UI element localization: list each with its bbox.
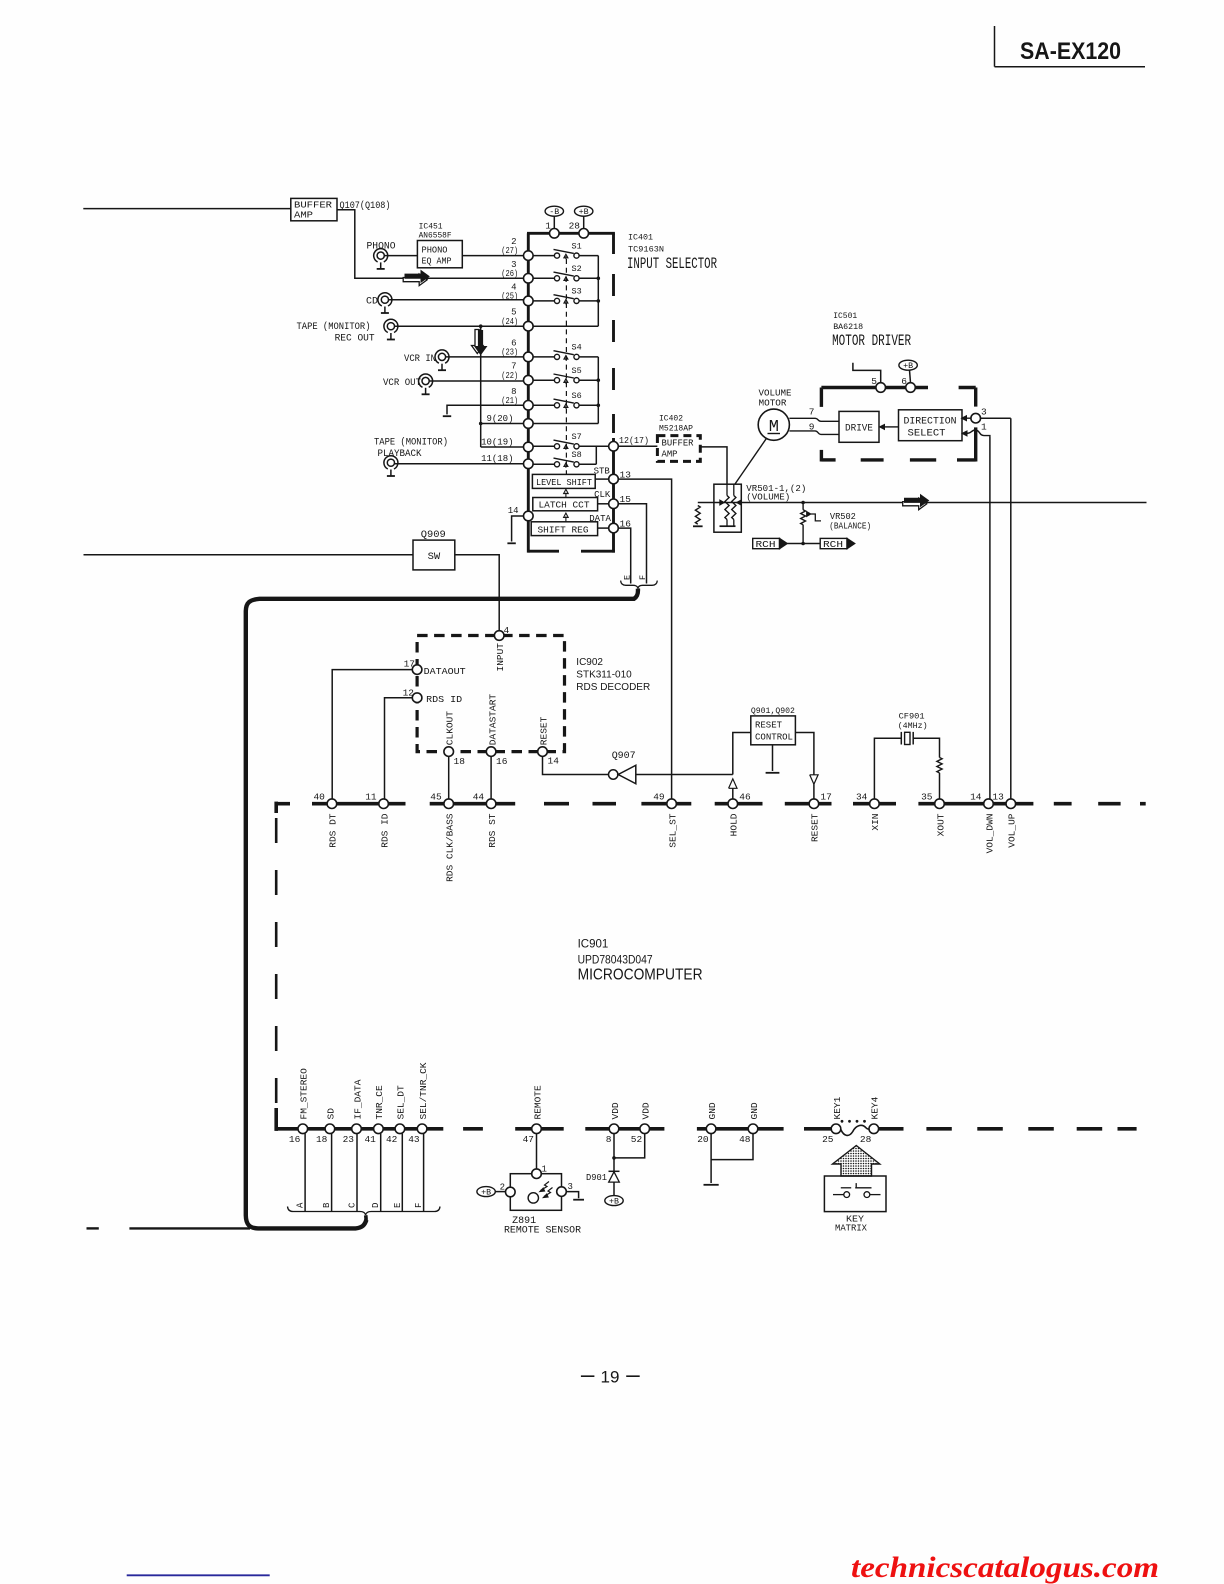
dotted link KEY1..KEY4 (841, 1120, 844, 1123)
pin 4 INPUT (494, 631, 504, 641)
svg-text:17: 17 (820, 791, 831, 802)
svg-text:INPUT: INPUT (495, 643, 506, 672)
svg-text:48: 48 (739, 1134, 751, 1145)
svg-text:VCR IN: VCR IN (404, 354, 436, 365)
svg-text:41: 41 (364, 1134, 376, 1145)
motor wire pin9 (789, 431, 839, 435)
VR502 bottom to RCH line (802, 525, 804, 544)
svg-text:XIN: XIN (870, 814, 881, 831)
pin 5 (876, 383, 886, 393)
mcu pin 18 SD (325, 1124, 335, 1134)
svg-text:35: 35 (921, 791, 933, 802)
svg-text:14: 14 (970, 791, 982, 802)
shift reg box (531, 522, 597, 536)
S4-S6 common vertical (597, 357, 599, 424)
wire reset control to reset pin (795, 733, 814, 775)
svg-text:28: 28 (569, 221, 581, 232)
svg-text:S2: S2 (572, 264, 582, 274)
blue footer underline (127, 1574, 270, 1576)
pin 1 squiggle wire to VOL_DWN (967, 430, 990, 438)
svg-text:XOUT: XOUT (935, 813, 946, 836)
VR502 wiper (807, 512, 811, 517)
sensor pin 3 (557, 1187, 567, 1197)
wire pin14 to Q907 (543, 756, 609, 774)
reset control ground stem (772, 745, 774, 771)
svg-text:TC9163N: TC9163N (628, 245, 664, 255)
svg-text:RDS DECODER: RDS DECODER (576, 682, 650, 693)
switch row stub wires (533, 255, 554, 257)
svg-text:RDS CLK/BASS: RDS CLK/BASS (445, 813, 456, 882)
light arrows (540, 1182, 553, 1198)
svg-text:(21): (21) (501, 396, 518, 406)
wire pin18 down (448, 756, 450, 799)
arrow latch<-shift (564, 513, 569, 522)
mcu pin 47 REMOTE (532, 1124, 542, 1134)
wire pin9(20) stub (481, 423, 524, 425)
svg-text:S6: S6 (572, 391, 582, 401)
wire pin10(19) stub (481, 446, 524, 448)
svg-text:RESET: RESET (539, 716, 550, 745)
RCH tag left (753, 538, 780, 548)
arrow into direction select pin3 (966, 417, 971, 419)
Q909 SW box (413, 540, 455, 570)
svg-text:CLKOUT: CLKOUT (445, 711, 456, 746)
svg-text:S5: S5 (572, 366, 582, 376)
svg-text:Q909: Q909 (421, 530, 446, 541)
S7 wires (533, 445, 554, 447)
svg-text:(VOLUME): (VOLUME) (746, 492, 790, 502)
svg-text:RESET: RESET (810, 813, 821, 842)
svg-text:DATAOUT: DATAOUT (424, 666, 466, 677)
junction rec out / monitor drop (479, 324, 483, 328)
latch cct box (533, 498, 598, 511)
svg-text:16: 16 (289, 1134, 301, 1145)
tape monitor playback jack (384, 456, 398, 469)
svg-text:7: 7 (809, 407, 815, 418)
svg-text:14: 14 (548, 756, 560, 767)
svg-text:DATA: DATA (589, 514, 611, 524)
svg-text:(25): (25) (501, 292, 518, 302)
svg-text:IF_DATA: IF_DATA (352, 1079, 363, 1119)
mcu pin 23 IF_DATA (352, 1124, 362, 1134)
wire pin16 down (490, 756, 492, 799)
pin 2(27) (524, 251, 534, 261)
svg-text:RESET: RESET (755, 720, 782, 731)
svg-text:+B: +B (579, 208, 589, 217)
svg-text:43: 43 (408, 1134, 420, 1145)
volume motor M (758, 409, 789, 440)
tape monitor rec out jack (384, 319, 398, 332)
drive box (839, 411, 879, 442)
VR501 wiper arrows (720, 500, 724, 505)
svg-text:17: 17 (404, 659, 415, 670)
wire crystal left to XIN (874, 738, 901, 799)
thick bus from EF tag down-left (246, 589, 638, 1229)
pin 4(25) (524, 296, 534, 306)
svg-text:FM_STEREO: FM_STEREO (299, 1068, 310, 1120)
svg-text:6: 6 (901, 376, 907, 387)
svg-text:25: 25 (822, 1134, 834, 1145)
svg-text:19: 19 (601, 1368, 620, 1387)
motor wire pin7 (789, 418, 839, 421)
mcu pin 16 FM_STEREO (298, 1124, 308, 1134)
wire pin12 to mcu pin11 (385, 698, 413, 799)
wire buffer amp to pin3 line (337, 210, 527, 278)
svg-text:44: 44 (473, 791, 485, 802)
mcu pin 48 GND (748, 1124, 758, 1134)
Z891 box (510, 1174, 561, 1211)
switch control dashed line (565, 259, 567, 474)
pin 7(22) (524, 375, 534, 385)
svg-text:KEY1: KEY1 (832, 1096, 843, 1119)
svg-text:VR502: VR502 (830, 512, 856, 522)
mcu pin 11 RDS ID (379, 799, 389, 809)
svg-text:5: 5 (871, 376, 877, 387)
svg-text:GND: GND (749, 1102, 760, 1119)
svg-text:49: 49 (653, 791, 665, 802)
switch S3 (554, 298, 559, 303)
direction select box (899, 410, 963, 441)
svg-text:VOL_UP: VOL_UP (1007, 813, 1018, 848)
IC401 right edge dashed (612, 233, 615, 254)
wire pin3 to ground (566, 1192, 578, 1199)
svg-text:(4MHz): (4MHz) (898, 721, 928, 731)
svg-text:E: E (393, 1203, 403, 1208)
mcu pin 34 XIN (870, 799, 880, 809)
Q907 inverter (609, 770, 618, 779)
svg-text:+B: +B (609, 1198, 619, 1207)
volume feed line (698, 502, 1147, 504)
svg-text:SEL_ST: SEL_ST (667, 813, 678, 848)
microcomputer top bus (276, 802, 290, 806)
svg-text:DRIVE: DRIVE (845, 424, 873, 435)
mcu pin 42 SEL_DT (395, 1124, 405, 1134)
pin 13 (609, 474, 619, 484)
pin 15 (609, 499, 619, 509)
svg-text:MICROCOMPUTER: MICROCOMPUTER (578, 966, 703, 983)
wire E line (401, 1134, 403, 1211)
mcu pin 17 RESET (809, 799, 819, 809)
wire pin20 to ground (710, 1134, 712, 1183)
mcu pin 13 VOL_UP (1006, 799, 1016, 809)
wire playback to pin11 (395, 463, 524, 465)
svg-text:BUFFER: BUFFER (662, 438, 694, 449)
svg-text:3: 3 (568, 1182, 573, 1192)
svg-text:RDS DT: RDS DT (328, 813, 339, 848)
mcu pin 45 RDS CLK/BASS (444, 799, 454, 809)
level shift box (532, 474, 595, 488)
svg-text:RCH: RCH (756, 539, 776, 550)
vertical monitor wire with down arrow (480, 326, 482, 447)
svg-text:A: A (296, 1202, 306, 1208)
pin 16 DATASTART (486, 747, 496, 757)
wire resistor to XOUT (939, 773, 941, 799)
svg-text:10(19): 10(19) (481, 437, 513, 447)
svg-text:8: 8 (606, 1134, 612, 1145)
mcu pin 41 TNR_CE (374, 1124, 384, 1134)
wire pin52 jog to pin8 line (614, 1134, 645, 1158)
svg-text:-B: -B (549, 208, 559, 217)
switch S1 (554, 253, 559, 258)
page number footer (581, 1375, 595, 1377)
motor driver box bottom (821, 458, 835, 461)
motor driver box left edge (820, 388, 823, 407)
svg-text:S4: S4 (572, 343, 582, 353)
mcu pin 43 SEL/TNR_CK (417, 1124, 427, 1134)
IC401 left bus (527, 233, 530, 552)
mcu pin 44 RDS ST (486, 799, 496, 809)
wire level shift to pin13 (595, 478, 608, 480)
wire pin15 CLK to F tag (618, 504, 646, 584)
svg-text:B: B (322, 1202, 332, 1208)
pin 12 RDS ID (412, 693, 422, 703)
svg-text:Q901,Q902: Q901,Q902 (751, 706, 795, 716)
svg-text:CLK: CLK (594, 490, 611, 500)
arrow level<-latch (564, 489, 569, 497)
title block line horizontal (995, 66, 1146, 68)
mcu top-left corner (274, 802, 278, 813)
wire phono jack to eq amp (384, 255, 417, 257)
pin 9(20) (524, 419, 534, 429)
svg-text:+B: +B (903, 362, 913, 371)
wire CD to pin4 (389, 299, 524, 301)
continuation dash bottom-left (87, 1227, 99, 1229)
wire latch to pin15 (598, 503, 610, 505)
svg-text:RCH: RCH (823, 539, 843, 550)
pin14 wire to ground (512, 516, 524, 542)
svg-text:TNR_CE: TNR_CE (374, 1085, 385, 1120)
wire left edge to SW (84, 554, 414, 556)
svg-text:(BALANCE): (BALANCE) (829, 522, 871, 532)
svg-text:(27): (27) (501, 246, 518, 256)
pin 3 wire to VOL_UP (981, 417, 1011, 419)
mcu bottom-left corner (274, 1108, 278, 1131)
S1-S3 common vertical (597, 256, 599, 327)
resistor to ground left of VR501 (695, 506, 700, 525)
volume line signal arrow (903, 498, 927, 510)
svg-text:IC501: IC501 (833, 311, 857, 321)
svg-text:technicscatalogus.com: technicscatalogus.com (851, 1551, 1159, 1584)
svg-text:EQ AMP: EQ AMP (422, 255, 452, 266)
VR501 pot element right (733, 484, 735, 495)
pin 8(21) (524, 401, 534, 411)
wire Q907 out to hold line (636, 774, 733, 776)
svg-text:CONTROL: CONTROL (755, 732, 793, 743)
svg-text:18: 18 (316, 1134, 328, 1145)
svg-text:SW: SW (428, 551, 441, 563)
mcu pin 40 RDS DT (327, 799, 337, 809)
pin 18 CLKOUT (444, 747, 454, 757)
svg-text:46: 46 (739, 791, 751, 802)
svg-text:LATCH CCT: LATCH CCT (539, 500, 590, 511)
svg-text:PLAYBACK: PLAYBACK (378, 449, 422, 460)
svg-text:1: 1 (545, 221, 551, 232)
svg-text:34: 34 (856, 791, 868, 802)
wire pin17 to mcu pin40 (332, 670, 412, 799)
svg-text:S7: S7 (572, 432, 582, 442)
mcu pin 49 SEL_ST (667, 799, 677, 809)
switch S8 (554, 462, 559, 467)
pin5 wire to common (533, 325, 598, 327)
svg-text:9(20): 9(20) (486, 414, 513, 424)
E/F tag brace (621, 581, 658, 589)
VR502 pot (801, 510, 806, 525)
svg-text:AN6558F: AN6558F (419, 231, 452, 241)
motor driver dashed box top (821, 386, 928, 389)
VR501 box (714, 484, 741, 532)
wire F line (423, 1134, 425, 1211)
wire pin16 DATA to E tag (618, 528, 631, 583)
phono input jack (374, 249, 388, 262)
mcu pin 20 GND (706, 1124, 716, 1134)
svg-text:(22): (22) (501, 371, 518, 381)
pin 28 (579, 229, 589, 239)
svg-text:20: 20 (697, 1134, 709, 1145)
svg-text:F: F (638, 575, 648, 580)
svg-text:MOTOR: MOTOR (759, 398, 788, 408)
svg-text:RDS ID: RDS ID (426, 694, 462, 705)
title block line vertical (994, 26, 996, 67)
wire crystal right to resistor (913, 738, 939, 757)
key switch symbol (833, 1194, 844, 1196)
wire B line (331, 1134, 333, 1211)
svg-text:CD: CD (366, 297, 378, 308)
wire rec out to pin5 (395, 325, 524, 327)
phono eq amp U-IC451 box (417, 241, 462, 268)
+B oval to pin2 (477, 1187, 495, 1197)
svg-text:F: F (414, 1203, 424, 1208)
mcu pin 8 VDD (609, 1124, 619, 1134)
A-F brace (288, 1207, 441, 1216)
svg-text:RDS ST: RDS ST (487, 813, 498, 848)
vertical VOL_DWN line (989, 438, 991, 799)
sensor pin 1 (532, 1169, 542, 1179)
svg-text:S1: S1 (572, 241, 582, 251)
pin 3 (971, 413, 981, 423)
mcu pin 46 HOLD (728, 799, 738, 809)
svg-text:D901: D901 (586, 1173, 607, 1183)
wire eq amp to pin2 (462, 255, 523, 257)
photo detector circle (528, 1193, 538, 1203)
pin 3(26) (524, 274, 534, 284)
thin continuation bottom-left (129, 1227, 250, 1229)
svg-text:DIRECTION: DIRECTION (904, 416, 957, 427)
svg-text:RDS ID: RDS ID (379, 813, 390, 848)
svg-text:PHONO: PHONO (422, 244, 448, 255)
svg-text:13: 13 (992, 791, 1004, 802)
+B oval above pin6 (899, 360, 917, 370)
svg-text:40: 40 (313, 791, 325, 802)
svg-text:14: 14 (508, 506, 519, 516)
pin 5(24) (524, 321, 534, 331)
mcu pin 25 KEY1 (831, 1124, 841, 1134)
pin 6(23) (524, 352, 534, 362)
resistor R-xout (937, 758, 942, 773)
svg-text:S8: S8 (572, 450, 582, 460)
pin 11(18) (524, 459, 534, 469)
switch S6 (554, 403, 559, 408)
svg-text:TAPE (MONITOR): TAPE (MONITOR) (297, 321, 371, 333)
S7/S8 common vertical (595, 446, 597, 464)
mcu left edge dashed (275, 818, 278, 1110)
wire SW to RDS input (455, 555, 499, 631)
svg-text:4: 4 (504, 625, 510, 636)
wire C line (356, 1134, 358, 1211)
IC402 buffer amp dashed box (657, 436, 700, 462)
svg-text:IC901: IC901 (578, 939, 609, 951)
svg-text:47: 47 (523, 1134, 534, 1145)
VR501 common bar (720, 525, 736, 527)
S8 wires (533, 463, 554, 465)
svg-text:STB: STB (594, 466, 611, 476)
wire A line (304, 1134, 306, 1211)
IC401 power -B oval (545, 206, 563, 216)
svg-text:MATRIX: MATRIX (835, 1222, 867, 1233)
wire D line (380, 1134, 382, 1211)
microcomputer bottom bus (276, 1127, 443, 1131)
svg-text:1: 1 (981, 422, 987, 433)
svg-text:REMOTE SENSOR: REMOTE SENSOR (504, 1225, 581, 1236)
VR502 stem from volume line (802, 503, 804, 510)
wire IC402 to VR501 (700, 447, 727, 484)
motor driver box right edge (974, 388, 977, 407)
svg-text:IC902: IC902 (576, 657, 603, 668)
pin 16 (609, 523, 619, 533)
diode D901 (609, 1170, 620, 1172)
svg-text:Q907: Q907 (612, 751, 636, 762)
sensor pin 2 (506, 1187, 516, 1197)
wire pin48 jog (711, 1134, 753, 1160)
pin 17 DATAOUT (412, 665, 422, 675)
svg-text:9: 9 (809, 422, 815, 433)
wire shift reg to pin16 (598, 527, 609, 529)
buffer amp Q107 box (291, 198, 337, 220)
svg-text:HOLD: HOLD (729, 813, 740, 836)
signal arrow on pin3 wire (403, 274, 427, 286)
svg-text:(26): (26) (501, 269, 518, 279)
svg-text:3: 3 (981, 407, 987, 418)
RCH tag right (820, 538, 847, 548)
svg-text:IC401: IC401 (628, 233, 653, 243)
svg-text:(23): (23) (501, 348, 518, 358)
VCR IN jack (435, 350, 449, 363)
svg-text:SEL_DT: SEL_DT (396, 1085, 407, 1120)
svg-text:TAPE (MONITOR): TAPE (MONITOR) (374, 437, 448, 449)
svg-text:BA6218: BA6218 (833, 322, 863, 332)
IC401 power +B oval (575, 206, 593, 216)
svg-text:MOTOR DRIVER: MOTOR DRIVER (832, 332, 911, 350)
wire between RCH tags (787, 543, 820, 545)
pin 6 (906, 383, 916, 393)
VCR OUT jack (419, 374, 433, 387)
switch S2 (554, 276, 559, 281)
svg-text:SD: SD (326, 1108, 337, 1120)
diagonal motor to VR501 (735, 438, 767, 484)
mcu pin 14 VOL_DWN (984, 799, 994, 809)
open arrow up on hold line (729, 779, 737, 789)
svg-text:REMOTE: REMOTE (532, 1085, 543, 1120)
VR501 pot element left (726, 484, 728, 495)
mcu pin 52 VDD (640, 1124, 650, 1134)
svg-text:AMP: AMP (662, 449, 678, 460)
switch S7 (554, 444, 559, 449)
svg-text:VOL_DWN: VOL_DWN (984, 814, 995, 854)
svg-text:SA-EX120: SA-EX120 (1020, 38, 1121, 65)
svg-text:SHIFT REG: SHIFT REG (538, 525, 589, 536)
svg-text:SELECT: SELECT (908, 428, 946, 439)
CD jack (378, 293, 392, 306)
svg-text:D: D (371, 1203, 381, 1208)
